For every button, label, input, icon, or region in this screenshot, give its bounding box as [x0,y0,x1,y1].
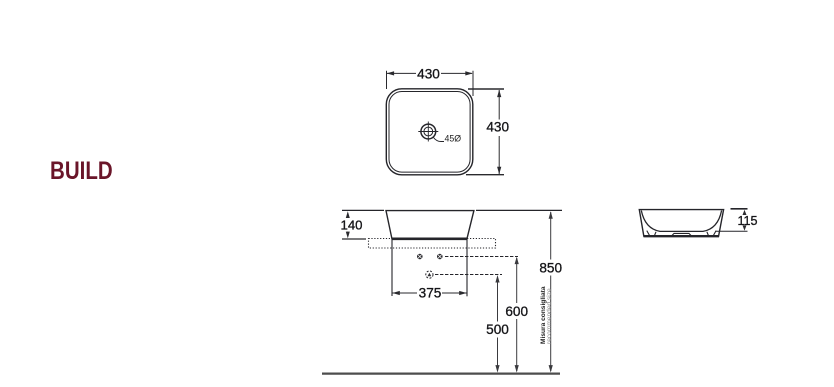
front view rim reference line [342,209,562,211]
svg-text:430: 430 [417,66,440,81]
svg-text:115: 115 [737,214,757,228]
svg-text:500: 500 [486,322,509,337]
svg-text:850: 850 [539,260,562,275]
svg-text:430: 430 [486,120,509,135]
svg-text:45Ø: 45Ø [445,134,462,144]
svg-text:375: 375 [419,285,442,300]
front view basin bottom thick edge [392,238,468,241]
dimension 115 (side) [716,209,748,231]
dimension 600 (front) [515,257,519,373]
fixing holes reference dashed line to 600 [445,256,518,258]
top view basin inner rim [389,92,470,173]
dimension 850 (front) [549,211,553,372]
drain 45mm top view [418,122,438,142]
counter top dotted rectangle [369,239,496,249]
dimension 140 (basin height, front) [342,211,366,239]
drain center mark [428,273,432,277]
fixing holes (front) [417,254,443,260]
top view basin outer rim [386,89,473,175]
side view inner bowl curve [641,211,721,232]
dimension 430 width (top view, horizontal) [387,71,474,96]
svg-text:BUILD: BUILD [50,156,113,184]
side view basin bottom thick edge [644,235,720,237]
svg-text:recommended size: recommended size [546,288,553,344]
dimension 375 (front) [392,291,466,295]
side view left foot [647,231,650,236]
product name BUILD [50,156,113,184]
svg-text:600: 600 [505,304,528,319]
side view right foot [713,231,716,236]
dimension 430 depth (top view, vertical right) [466,89,504,175]
side view basin outline [639,210,723,237]
drain dashed circle (front) [426,271,433,278]
floor line [322,373,560,375]
wall lines below basin (left and right) [392,239,467,296]
front view basin outline [386,211,474,239]
svg-text:140: 140 [340,217,362,232]
leader line 45Ø [434,138,445,142]
side view center recess [672,233,692,236]
drain reference dashed line to 500 [435,274,502,276]
dimension 500 (front) [495,275,499,373]
